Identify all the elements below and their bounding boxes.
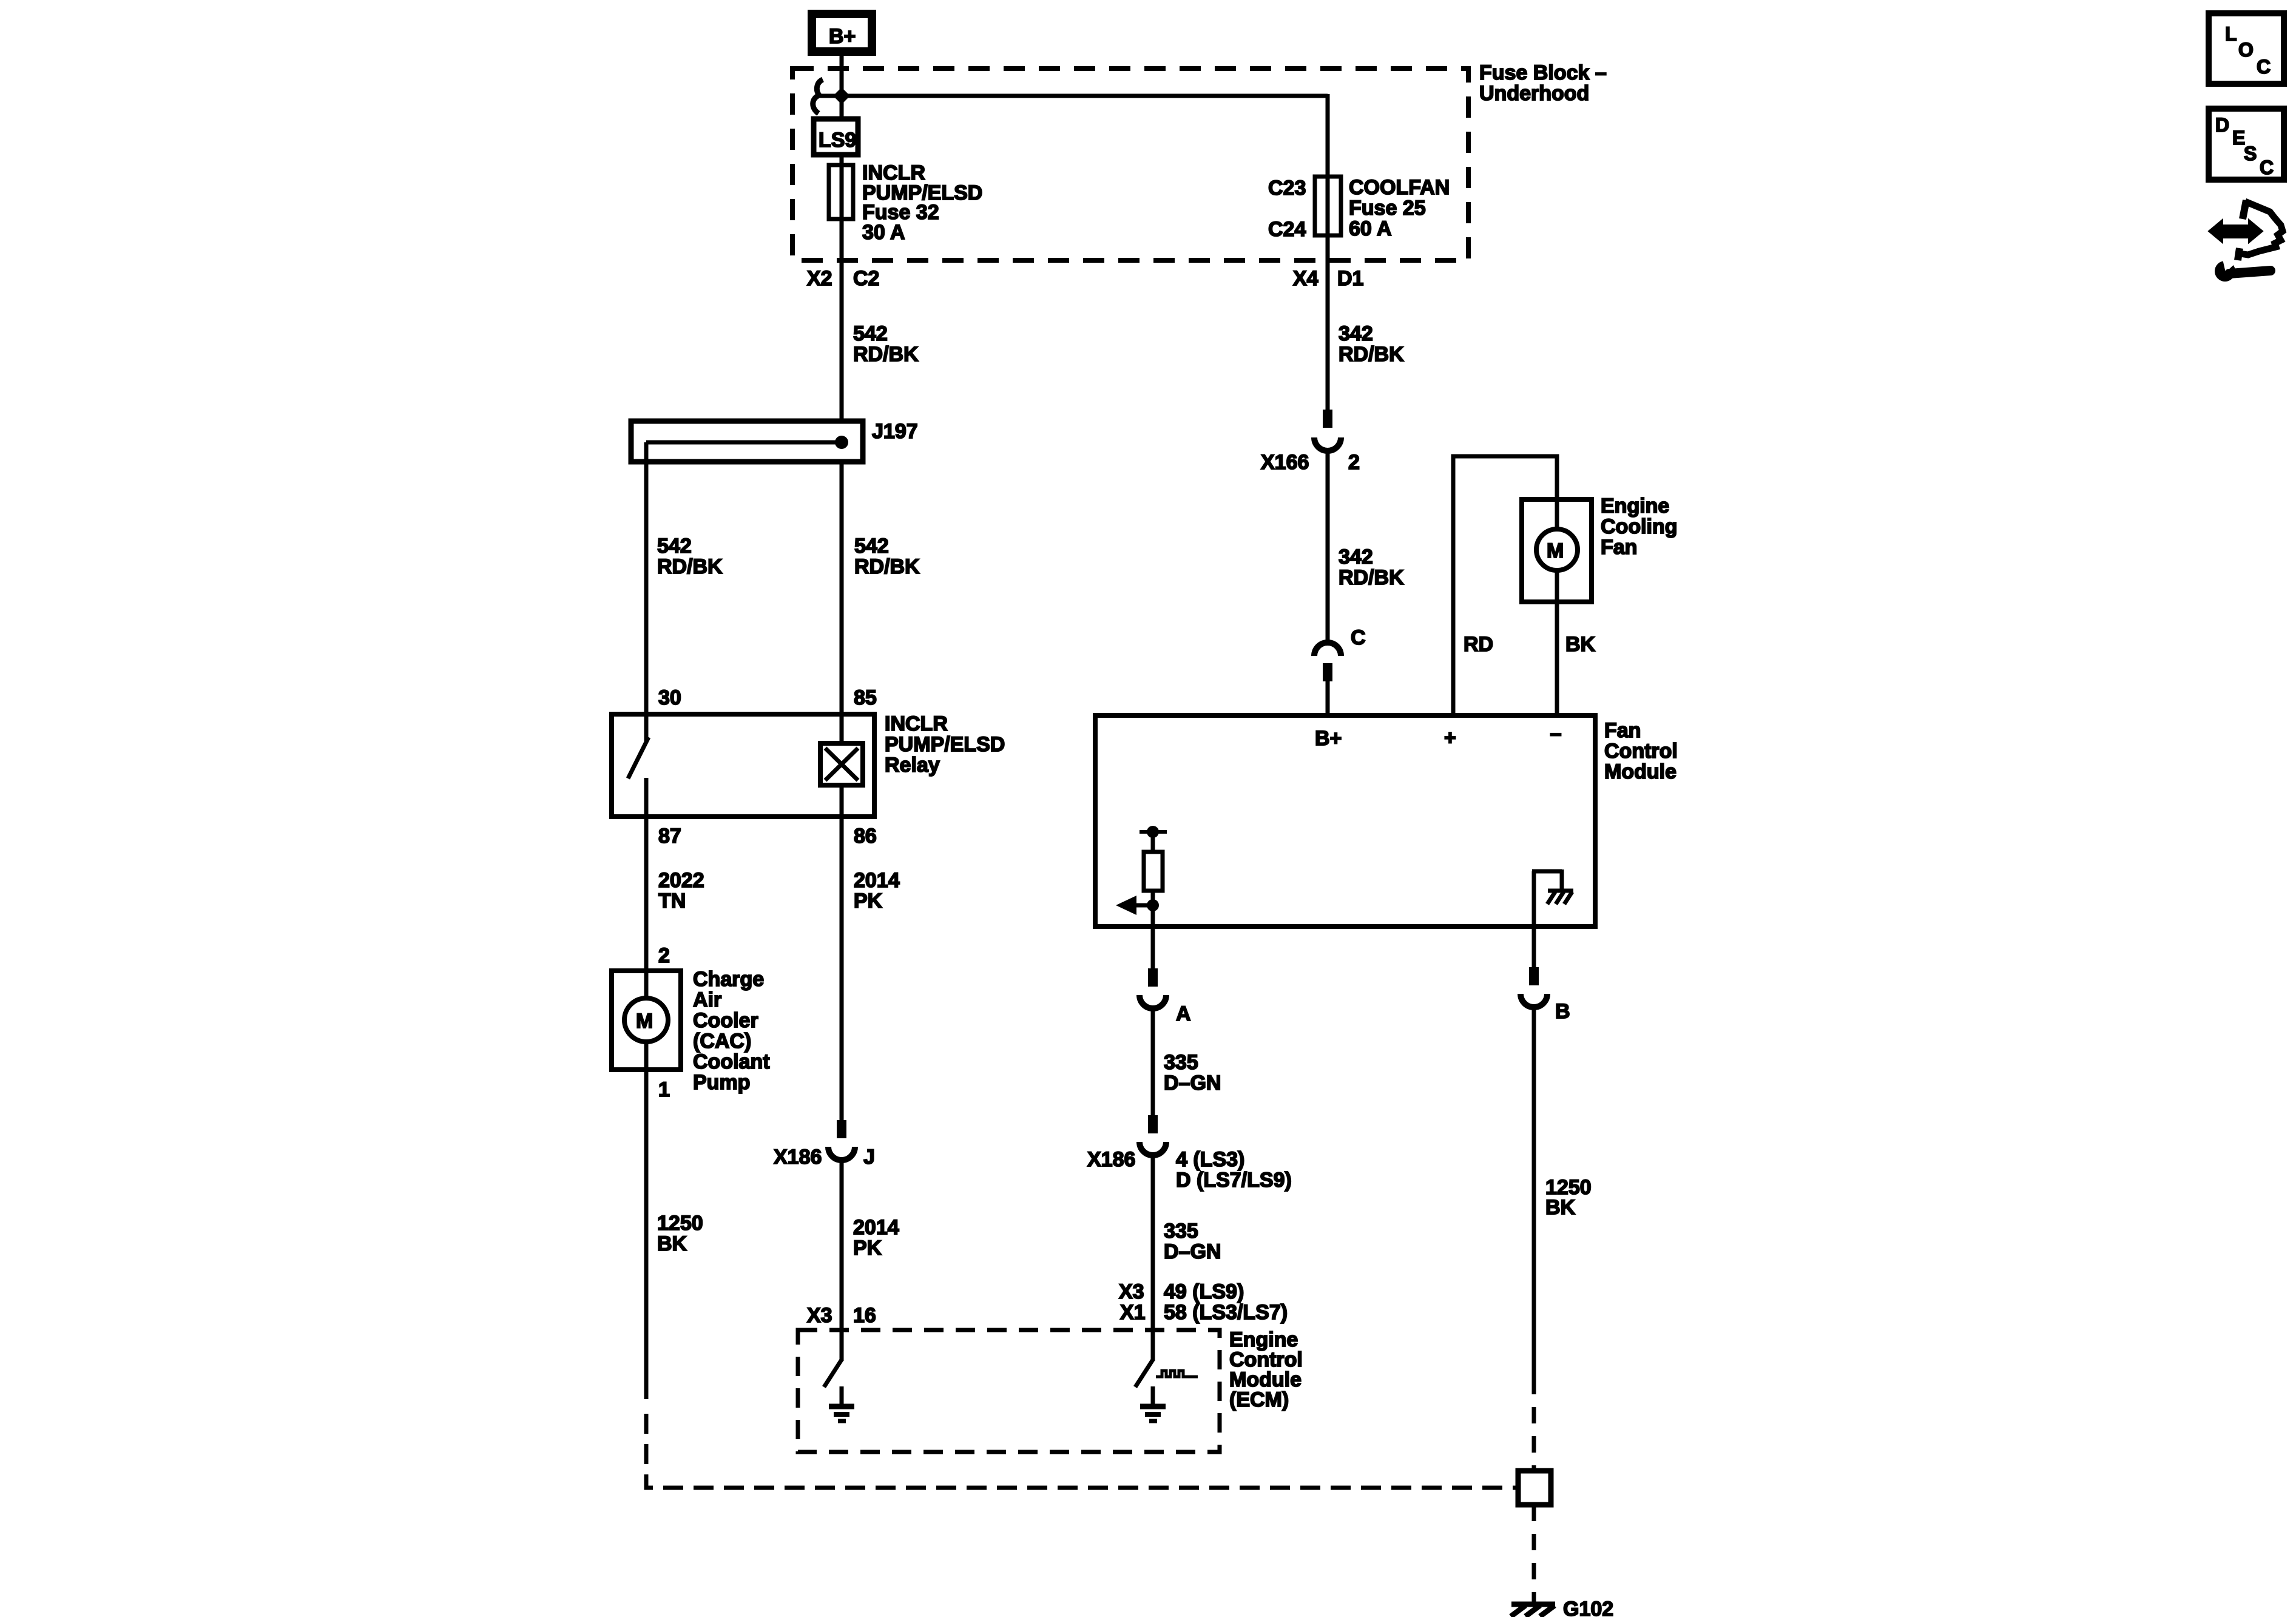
svg-text:(CAC): (CAC) xyxy=(693,1030,751,1053)
svg-text:Coolant: Coolant xyxy=(693,1050,770,1073)
wire top bus horizontal xyxy=(820,94,1328,98)
label pump xyxy=(693,968,770,1094)
svg-text:Fuse 25: Fuse 25 xyxy=(1349,197,1426,220)
LS9 tag box xyxy=(814,119,858,155)
wire relay 87 to pump xyxy=(644,817,649,973)
corner icon DESC xyxy=(2209,109,2284,180)
node junction at B+ bus xyxy=(833,87,850,104)
wire dashed to G102 xyxy=(1532,1505,1536,1604)
wire X186 to ECM fan control xyxy=(1151,1154,1155,1361)
fuse block underhood dashed box xyxy=(792,69,1468,260)
svg-text:85: 85 xyxy=(854,686,877,709)
svg-text:+: + xyxy=(1444,726,1456,749)
svg-text:342: 342 xyxy=(1339,322,1373,345)
label fuse 32 xyxy=(862,161,982,244)
svg-text:C23: C23 xyxy=(1268,177,1306,200)
svg-text:X4: X4 xyxy=(1293,267,1319,290)
svg-text:2: 2 xyxy=(658,944,670,967)
wire J197 to relay 30 xyxy=(644,442,649,717)
svg-text:M: M xyxy=(1547,539,1564,562)
pin label X1 58 xyxy=(1120,1301,1288,1324)
pin label X4 D1 xyxy=(1293,267,1363,290)
connector C of fan control module xyxy=(1314,626,1366,681)
svg-text:RD/BK: RD/BK xyxy=(1339,343,1404,366)
label relay xyxy=(885,712,1005,777)
svg-text:1: 1 xyxy=(658,1078,670,1101)
svg-text:D (LS7/LS9): D (LS7/LS9) xyxy=(1176,1169,1292,1192)
wire label 542 RD/BK right xyxy=(854,535,920,578)
wire label 2014 PK lower xyxy=(853,1216,899,1260)
svg-text:60 A: 60 A xyxy=(1349,217,1392,240)
splice J197 xyxy=(631,420,918,462)
svg-text:335: 335 xyxy=(1164,1051,1198,1074)
wire label 342 RD/BK upper xyxy=(1339,322,1404,366)
svg-text:335: 335 xyxy=(1164,1220,1198,1243)
label ECM xyxy=(1229,1328,1303,1411)
fuse F32 body xyxy=(829,165,853,219)
connector B xyxy=(1521,967,1570,1023)
svg-text:Module: Module xyxy=(1604,760,1676,783)
fuse F25 body xyxy=(1315,177,1341,235)
wire J197 to relay 85 xyxy=(840,462,844,717)
svg-text:(ECM): (ECM) xyxy=(1229,1388,1289,1411)
svg-text:342: 342 xyxy=(1339,545,1373,569)
wire bus through fuse 25 to X166 xyxy=(1326,94,1330,410)
label Fuse Block - Underhood xyxy=(1479,61,1607,105)
wire FCM output to connector A xyxy=(1151,905,1155,970)
svg-text:Fan: Fan xyxy=(1601,536,1637,559)
svg-text:B+: B+ xyxy=(1315,727,1342,750)
wire label 542 RD/BK upper xyxy=(853,322,919,366)
connector A xyxy=(1140,968,1191,1025)
svg-text:Charge: Charge xyxy=(693,968,764,991)
wire label 1250 BK right xyxy=(1545,1176,1592,1219)
svg-text:542: 542 xyxy=(854,535,889,558)
svg-text:Cooler: Cooler xyxy=(693,1009,758,1032)
svg-text:LS9: LS9 xyxy=(819,129,856,152)
svg-text:2014: 2014 xyxy=(854,869,900,892)
svg-text:D: D xyxy=(2215,114,2229,136)
svg-text:542: 542 xyxy=(657,535,692,558)
ECM PWM signal glyph xyxy=(1156,1371,1198,1377)
svg-text:C: C xyxy=(1351,626,1366,649)
svg-text:RD/BK: RD/BK xyxy=(853,343,919,366)
wire LS9 through fuse 32 to J197 xyxy=(840,152,844,424)
wire relay 86 to X186 J xyxy=(840,817,844,1121)
wire label 1250 BK left xyxy=(657,1212,703,1255)
FCM internal chassis ground xyxy=(1532,869,1573,924)
svg-text:BK: BK xyxy=(1545,1196,1576,1219)
svg-text:X3: X3 xyxy=(807,1304,832,1327)
corner icon service tool xyxy=(2210,200,2283,282)
svg-text:Underhood: Underhood xyxy=(1479,82,1589,105)
wire FCM minus to connector B xyxy=(1532,927,1536,968)
wire pump to ground run xyxy=(644,1070,649,1399)
svg-text:C: C xyxy=(2260,157,2274,178)
svg-text:D–GN: D–GN xyxy=(1164,1072,1221,1095)
svg-text:58 (LS3/LS7): 58 (LS3/LS7) xyxy=(1164,1301,1288,1324)
svg-text:BK: BK xyxy=(1565,633,1596,656)
svg-text:RD: RD xyxy=(1464,633,1493,656)
svg-text:Engine: Engine xyxy=(1601,495,1669,518)
svg-text:S: S xyxy=(2244,143,2257,164)
connector X166 pin 2 xyxy=(1261,410,1360,474)
motor M engine cooling fan xyxy=(1522,499,1592,602)
svg-text:PK: PK xyxy=(853,1237,882,1260)
svg-text:M: M xyxy=(636,1010,653,1033)
wire label 335 D-GN lower xyxy=(1164,1220,1221,1263)
svg-text:C: C xyxy=(2257,56,2271,78)
svg-text:D–GN: D–GN xyxy=(1164,1240,1221,1263)
B+ power symbol xyxy=(812,14,872,52)
engine control module dashed box xyxy=(798,1330,1220,1452)
svg-text:Fan: Fan xyxy=(1604,719,1641,742)
svg-text:542: 542 xyxy=(853,322,888,345)
relay K INCLR PUMP/ELSD box xyxy=(612,714,874,817)
svg-text:1250: 1250 xyxy=(657,1212,703,1235)
motor M charge air cooler coolant pump xyxy=(612,971,681,1070)
svg-text:16: 16 xyxy=(853,1304,876,1327)
svg-text:B+: B+ xyxy=(829,25,856,48)
svg-text:X166: X166 xyxy=(1261,451,1309,474)
svg-text:PUMP/ELSD: PUMP/ELSD xyxy=(885,733,1005,756)
ground distribution box xyxy=(1518,1471,1551,1505)
svg-text:Relay: Relay xyxy=(885,754,940,777)
svg-text:J: J xyxy=(863,1146,875,1169)
svg-text:X186: X186 xyxy=(774,1146,822,1169)
wire X186 J to ECM 16 xyxy=(840,1159,844,1361)
svg-text:O: O xyxy=(2238,39,2254,61)
label fuse 25 xyxy=(1349,176,1450,240)
svg-text:C2: C2 xyxy=(853,267,879,290)
svg-text:49 (LS9): 49 (LS9) xyxy=(1164,1280,1244,1303)
wire label 2014 PK upper xyxy=(854,869,900,913)
svg-text:2022: 2022 xyxy=(658,869,704,892)
ECM ground left xyxy=(829,1386,854,1421)
svg-text:−: − xyxy=(1550,723,1562,746)
connector X186 pin J xyxy=(774,1120,875,1169)
svg-text:J197: J197 xyxy=(872,420,918,443)
wire A to X186 xyxy=(1151,1007,1155,1116)
wire RD fan positive xyxy=(1453,456,1557,718)
wire C to FCM B+ xyxy=(1326,681,1330,718)
ECM fan driver switch xyxy=(1135,1330,1153,1387)
wire B to G102 xyxy=(1532,1006,1536,1394)
svg-text:Fuse Block –: Fuse Block – xyxy=(1479,61,1607,84)
corner icon LOC xyxy=(2209,13,2284,84)
svg-text:BK: BK xyxy=(657,1232,687,1255)
wire label 342 RD/BK lower xyxy=(1339,545,1404,589)
ECM pump driver switch xyxy=(824,1330,842,1387)
label engine cooling fan xyxy=(1601,495,1678,559)
svg-text:B: B xyxy=(1555,1000,1570,1023)
svg-text:RD/BK: RD/BK xyxy=(1339,566,1404,589)
svg-text:RD/BK: RD/BK xyxy=(854,555,920,578)
svg-text:C24: C24 xyxy=(1268,218,1306,241)
svg-text:Cooling: Cooling xyxy=(1601,515,1678,538)
svg-text:RD/BK: RD/BK xyxy=(657,555,723,578)
wire dashed B drop xyxy=(1532,1407,1536,1471)
wire BK fan negative xyxy=(1555,602,1559,718)
ECM ground right xyxy=(1140,1386,1166,1421)
svg-text:Pump: Pump xyxy=(693,1071,750,1094)
wire label 335 D-GN upper xyxy=(1164,1051,1221,1095)
wire label 2022 TN xyxy=(658,869,704,913)
svg-text:2014: 2014 xyxy=(853,1216,899,1239)
svg-text:X2: X2 xyxy=(807,267,832,290)
svg-text:2: 2 xyxy=(1348,451,1360,474)
svg-text:4 (LS3): 4 (LS3) xyxy=(1176,1148,1244,1171)
svg-text:30 A: 30 A xyxy=(862,221,905,244)
wire dashed pump ground run to G102 xyxy=(646,1414,1518,1488)
svg-text:X1: X1 xyxy=(1120,1301,1146,1324)
svg-text:L: L xyxy=(2225,23,2237,45)
pin label X3 49 xyxy=(1119,1280,1244,1303)
label fan control module xyxy=(1604,719,1678,783)
svg-text:X3: X3 xyxy=(1119,1280,1144,1303)
relay coil xyxy=(820,714,863,817)
fan control module box xyxy=(1095,715,1595,927)
svg-text:INCLR: INCLR xyxy=(885,712,948,735)
svg-text:G102: G102 xyxy=(1563,1598,1613,1617)
svg-text:A: A xyxy=(1176,1002,1191,1025)
ground G102 xyxy=(1511,1598,1613,1617)
svg-text:30: 30 xyxy=(658,686,681,709)
FCM internal driver resistor xyxy=(1140,826,1167,905)
svg-text:Air: Air xyxy=(693,988,721,1011)
wire X166 to C xyxy=(1326,450,1330,643)
svg-text:Control: Control xyxy=(1604,740,1678,763)
wire B+ feed down xyxy=(840,56,844,119)
pin label X3 16 xyxy=(807,1304,876,1327)
svg-text:86: 86 xyxy=(854,825,877,848)
FCM internal output arrow xyxy=(1116,896,1159,915)
relay switch contact xyxy=(628,714,649,817)
svg-text:TN: TN xyxy=(658,890,686,913)
connector X186 pin 4/D xyxy=(1087,1115,1292,1192)
svg-text:X186: X186 xyxy=(1087,1148,1135,1171)
svg-text:D1: D1 xyxy=(1337,267,1363,290)
wire label 542 RD/BK left xyxy=(657,535,723,578)
svg-text:COOLFAN: COOLFAN xyxy=(1349,176,1450,199)
svg-text:PK: PK xyxy=(854,890,883,913)
pin label X2 C2 xyxy=(807,267,879,290)
fusible link curl xyxy=(813,79,823,113)
svg-text:87: 87 xyxy=(658,825,681,848)
